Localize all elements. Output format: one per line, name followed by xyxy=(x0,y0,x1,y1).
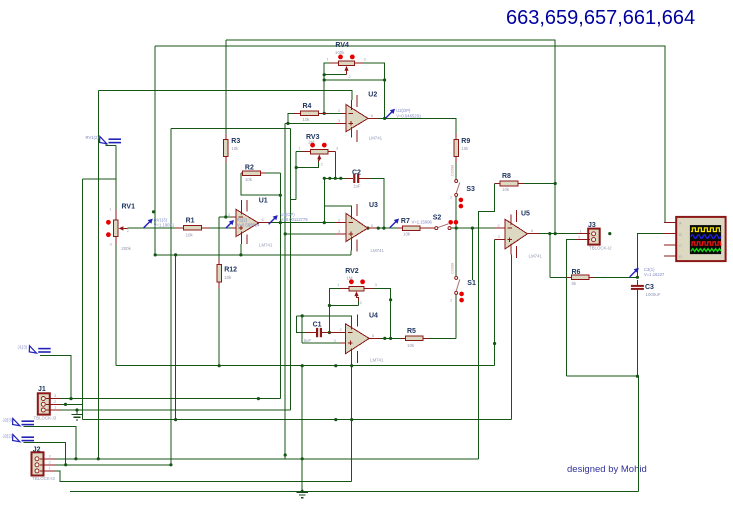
svg-text:V=1.15996: V=1.15996 xyxy=(412,220,433,225)
svg-text:RV2: RV2 xyxy=(345,268,359,275)
wire S2 junction down to S1 xyxy=(455,228,457,276)
svg-text:10k: 10k xyxy=(403,232,411,237)
svg-text:U2: U2 xyxy=(368,92,377,99)
wire probe J2-3 tail xyxy=(23,427,76,459)
probe arrow RV1 wiper xyxy=(144,219,153,228)
wire probe J1-3 tail xyxy=(40,355,71,398)
wire R5 right riser to S1 xyxy=(429,337,456,339)
wire vertical x290 to J1 pin1 row xyxy=(289,129,291,410)
wire ground row xyxy=(70,491,639,493)
svg-text:U1(OP): U1(OP) xyxy=(281,212,296,217)
capacitor C2 xyxy=(345,169,370,188)
wire U2 output row to R9 xyxy=(377,118,456,133)
wire R8 right to feedback vertical xyxy=(523,183,555,185)
wire J1 pin3 row xyxy=(60,398,280,400)
svg-text:C: C xyxy=(679,243,682,248)
svg-text:D: D xyxy=(679,254,682,259)
wire bottom link under C3 xyxy=(566,376,638,491)
wire S3 to S2 junction xyxy=(455,196,457,228)
svg-text:10k: 10k xyxy=(303,117,311,122)
svg-text:10k: 10k xyxy=(224,275,232,280)
svg-text:TBLOCK-I3: TBLOCK-I3 xyxy=(34,416,57,421)
resistor R6 xyxy=(566,269,594,286)
wire vertical x170 xyxy=(170,129,172,465)
svg-text:RV1(2): RV1(2) xyxy=(86,135,100,140)
wire RV4 right feedback drop xyxy=(355,63,385,118)
svg-text:LM741: LM741 xyxy=(259,243,273,248)
wire S1 to R5 riser xyxy=(455,294,457,338)
op-amp U3 xyxy=(335,202,384,253)
svg-text:R5: R5 xyxy=(407,328,416,335)
svg-text:B: B xyxy=(679,232,682,237)
wire RV1 wiper row to R1 and U1 pin3 xyxy=(127,227,174,229)
svg-text:RV1: RV1 xyxy=(122,203,136,210)
wire x351 riser J2pin1 to rail2 xyxy=(351,420,353,482)
wire y90 horizontal to U2 top pin xyxy=(98,91,352,101)
connector J3 xyxy=(576,222,612,251)
svg-text:J2(3): J2(3) xyxy=(3,417,13,422)
RV3 actuator dots xyxy=(310,143,315,148)
svg-text:J2(2): J2(2) xyxy=(3,433,13,438)
wire R8 left link xyxy=(479,184,495,459)
svg-text:LM741: LM741 xyxy=(529,254,543,259)
svg-text:R2: R2 xyxy=(245,165,254,172)
svg-text:S3: S3 xyxy=(466,186,475,193)
wire H315 row xyxy=(297,316,352,319)
svg-text:5k: 5k xyxy=(572,281,577,286)
wire C1 left riser xyxy=(297,316,306,333)
svg-text:5uF: 5uF xyxy=(304,338,312,343)
svg-text:C1: C1 xyxy=(313,322,322,329)
wire U4 pin3 row xyxy=(302,342,339,344)
wire RV1 probe link xyxy=(83,178,116,180)
svg-text:designed by Mohid: designed by Mohid xyxy=(567,464,647,475)
op-amp U4 xyxy=(334,313,384,364)
svg-text:U1: U1 xyxy=(259,198,268,205)
svg-text:U4: U4 xyxy=(369,313,378,320)
wire top bus A xyxy=(226,40,555,234)
resistor R5 xyxy=(401,328,430,348)
svg-text:J2: J2 xyxy=(33,446,41,453)
wire y128 horizontal xyxy=(171,128,291,130)
svg-text:10k: 10k xyxy=(186,232,194,237)
svg-text:S1: S1 xyxy=(467,280,476,287)
wire J1 pin2 row xyxy=(61,403,83,405)
resistor R7 xyxy=(397,218,435,237)
svg-text:U5: U5 xyxy=(521,211,530,218)
svg-text:V=0.00113779: V=0.00113779 xyxy=(281,217,309,222)
resistor R2 xyxy=(241,165,266,183)
wire U5 output row to J3 xyxy=(540,233,577,235)
wire RV3 pin1 drop xyxy=(295,152,297,200)
wire R1 right to U1 pin3 xyxy=(210,227,231,229)
svg-text:1000uF: 1000uF xyxy=(646,292,661,297)
wire RV2 node drop to C1 xyxy=(328,306,330,333)
svg-text:1uF: 1uF xyxy=(353,183,361,188)
wire U2 pin3 row xyxy=(285,122,335,124)
svg-text:100k: 100k xyxy=(335,50,345,55)
svg-text:CC088: CC088 xyxy=(451,165,455,176)
potentiometer RV3 xyxy=(296,134,339,167)
op-amp U5 xyxy=(495,210,543,259)
switch S1 xyxy=(450,263,476,303)
capacitor C3 xyxy=(631,280,661,297)
ground near J1 xyxy=(72,410,83,420)
probe arrow U3 output xyxy=(390,219,399,228)
svg-text:CC088: CC088 xyxy=(451,263,455,274)
wire U4 pin4 drop xyxy=(351,355,353,420)
wire J1 pin1 row xyxy=(61,409,291,411)
svg-text:R4: R4 xyxy=(303,103,312,110)
wire RV2 pin3 drop xyxy=(373,289,390,339)
wire U5 pin3 drop to rail1 xyxy=(494,240,496,366)
wire staple link xyxy=(290,198,296,200)
wire R3 bottom link xyxy=(225,163,227,217)
wire RV4 wiper link xyxy=(324,74,346,76)
wire U5 pin4 drop xyxy=(510,255,512,420)
wire RV3 wiper link xyxy=(296,162,318,168)
wire R9 bottom to S3 xyxy=(455,163,457,180)
svg-text:10k: 10k xyxy=(245,177,253,182)
resistor R3 xyxy=(224,40,241,163)
wire probe RV1-2 tail xyxy=(106,144,116,146)
svg-text:663,659,657,661,664: 663,659,657,661,664 xyxy=(506,7,695,29)
wire rail2 xyxy=(83,419,512,421)
wire U2 pin2 row xyxy=(322,112,335,114)
wire RV4 left link xyxy=(324,63,329,113)
wire top bus B to scope A xyxy=(155,46,676,223)
wire U3 top pin link xyxy=(324,206,351,211)
generator probe J1(3) xyxy=(18,344,51,353)
wire R6 right row to C3 xyxy=(594,276,637,278)
svg-text:200k: 200k xyxy=(121,246,131,251)
probe arrow U1 output xyxy=(269,215,278,224)
svg-text:U3: U3 xyxy=(369,202,378,209)
wire RV1 bottom drop to rail1 xyxy=(115,245,117,366)
svg-text:R3: R3 xyxy=(231,138,240,145)
RV2 actuator dots xyxy=(349,279,354,284)
wire J2 pin1 drop and row xyxy=(55,471,352,481)
wire R12 bottom to rail1 xyxy=(218,288,220,366)
generator probe J2(3) xyxy=(3,417,35,425)
connector J1 xyxy=(34,386,61,421)
wire J2 pin3 row xyxy=(55,458,479,460)
svg-text:V=0.0465291: V=0.0465291 xyxy=(396,114,422,119)
wire long left vertical x98 xyxy=(97,91,99,459)
svg-text:R8: R8 xyxy=(502,173,511,180)
potentiometer RV1 xyxy=(110,203,136,251)
svg-text:V=1.16227: V=1.16227 xyxy=(644,272,665,277)
resistor R8 xyxy=(495,173,523,192)
potentiometer RV4 xyxy=(327,42,367,79)
wire U3 pin3 row xyxy=(285,233,335,235)
wire U1 pin4 stub xyxy=(240,244,242,255)
wire U4 out row to R5 xyxy=(380,337,400,339)
wire R6 left stub xyxy=(550,276,567,278)
wire C3 bottom drop xyxy=(636,290,638,376)
ground bottom center xyxy=(297,490,308,498)
op-amp U1 xyxy=(228,198,273,248)
switch S3 xyxy=(450,165,475,209)
generator probe RV1(2) xyxy=(86,135,122,144)
wire probe J2-2 tail xyxy=(23,442,65,465)
svg-text:J1: J1 xyxy=(38,386,46,393)
generator probe J2(2) xyxy=(3,433,35,441)
wire U3 out row to R7 xyxy=(376,227,397,229)
wire R6 left riser xyxy=(549,234,551,278)
probe arrow R1(2) at U1 input xyxy=(226,220,234,228)
svg-text:10k: 10k xyxy=(407,343,415,348)
wire S2 junction to U5 pin2 xyxy=(451,227,495,229)
svg-text:R1: R1 xyxy=(186,217,195,224)
svg-text:V=1.19031: V=1.19031 xyxy=(154,223,175,228)
wire C3 node up to scope B row xyxy=(637,234,664,278)
wire rail2 left riser xyxy=(82,179,84,420)
svg-text:U2(OP): U2(OP) xyxy=(396,108,411,113)
capacitor C1 xyxy=(304,322,346,344)
svg-text:C3: C3 xyxy=(645,284,654,291)
resistor R4 xyxy=(293,103,341,122)
svg-text:S2: S2 xyxy=(433,215,442,222)
svg-text:J3: J3 xyxy=(588,222,596,229)
wire U1 out to U3 pin2 row xyxy=(269,222,336,224)
probe arrow U2 output xyxy=(386,109,395,118)
resistor R9 xyxy=(454,133,470,162)
wire Vminus rail xyxy=(155,254,351,256)
resistor R12 xyxy=(217,258,237,288)
svg-text:RV4: RV4 xyxy=(335,42,349,49)
wire J2 pin2 row xyxy=(55,464,171,466)
wire U5 pin2 vert drop xyxy=(471,228,473,280)
wire RV2 pin1 link xyxy=(329,289,339,306)
wire RV3 pin3 drop xyxy=(334,152,336,179)
svg-text:LM741: LM741 xyxy=(370,358,384,363)
probe arrow C3 node xyxy=(630,268,639,277)
switch S2 xyxy=(433,215,459,230)
svg-text:R12: R12 xyxy=(224,266,237,273)
wire R4 left drop xyxy=(288,113,293,123)
wire vertical x285 long drop xyxy=(284,123,286,458)
svg-text:TBLOCK-I2: TBLOCK-I2 xyxy=(589,246,612,251)
RV1 actuator dots xyxy=(106,220,111,225)
oscilloscope xyxy=(664,217,726,261)
wire C2 right feedback drop xyxy=(370,178,384,228)
resistor R1 xyxy=(175,217,210,237)
svg-text:C2: C2 xyxy=(352,169,361,176)
wire RV4 cross link y80 xyxy=(324,79,384,81)
svg-text:V=0.565514: V=0.565514 xyxy=(237,223,260,228)
svg-text:R7: R7 xyxy=(401,218,410,225)
svg-text:10k: 10k xyxy=(231,146,239,151)
potentiometer RV2 xyxy=(337,268,378,306)
wire vertical x280 to J1 pin3 row xyxy=(279,173,281,398)
svg-text:R9: R9 xyxy=(461,138,470,145)
svg-text:TBLOCK-I3: TBLOCK-I3 xyxy=(32,476,55,481)
wire R2 right to x280 xyxy=(266,172,280,174)
wire R12 top link xyxy=(218,217,220,258)
svg-text:R6: R6 xyxy=(572,269,581,276)
op-amp U2 xyxy=(335,92,382,143)
wire C2 left node row xyxy=(324,177,345,179)
wire J3 pin2 drop xyxy=(566,240,576,377)
wire rail1 xyxy=(116,365,495,367)
wire U3 pin4 stub xyxy=(350,250,352,255)
svg-text:A: A xyxy=(679,221,682,226)
wire x175 drop to rail2 xyxy=(175,255,177,420)
wire RV1 top lead riser xyxy=(115,146,117,210)
wire left vertical from bus B xyxy=(154,46,156,255)
svg-text:J1(3): J1(3) xyxy=(18,344,28,349)
wire ground drop x302 xyxy=(301,366,303,492)
svg-text:LM741: LM741 xyxy=(369,136,383,141)
wire RV2 wiper link xyxy=(329,305,358,307)
RV4 actuator dots xyxy=(338,55,343,60)
wire R2 left feedback xyxy=(241,173,280,195)
svg-text:LM741: LM741 xyxy=(371,248,385,253)
connector J2 xyxy=(32,446,56,481)
wire U1 pin2 row xyxy=(219,216,231,218)
wire C2 node down to U3 pin2 xyxy=(323,178,325,222)
svg-text:10k: 10k xyxy=(461,146,469,151)
wire U4 pin3 drop xyxy=(301,316,303,343)
svg-text:10k: 10k xyxy=(502,187,510,192)
